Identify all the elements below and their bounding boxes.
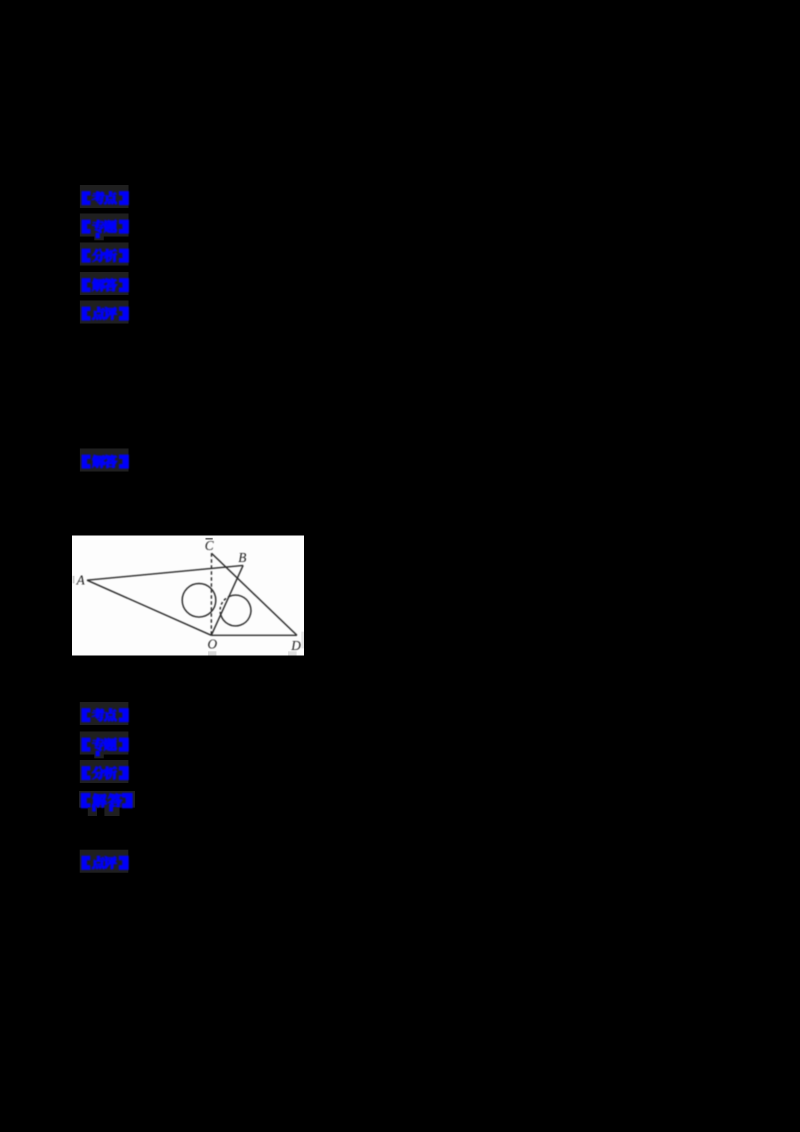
blue label line 2 (zhuanti) — [82, 220, 128, 233]
gray tab below (zhuan hook) — [94, 754, 104, 759]
artifact below O — [208, 651, 216, 655]
band line 9 — [80, 760, 129, 783]
blue label line 5 (dianping) — [82, 307, 128, 320]
band line 5 — [80, 301, 129, 324]
blue label line 10 (jieda13) — [81, 793, 132, 807]
segment AO — [87, 580, 211, 635]
blue label line 11 (dianping) — [82, 856, 128, 869]
gray tab below (zhuan hook) — [94, 236, 104, 241]
artifact right edge strip — [301, 632, 304, 649]
blue label line 3 (fenxi) — [82, 249, 128, 262]
blue label line 7 (kaodian) — [82, 709, 128, 722]
figure white box — [72, 536, 304, 656]
svg-text:B: B — [238, 550, 246, 565]
band line 6 — [80, 449, 129, 472]
band line 4 — [80, 272, 129, 295]
svg-text:A: A — [76, 573, 86, 588]
segment BO — [211, 565, 243, 635]
right circle dashed arc — [220, 597, 229, 615]
band line 8 — [80, 732, 129, 755]
band line 1 — [80, 185, 129, 208]
artifact bottom right — [288, 651, 297, 655]
blue label line 9 (fenxi) — [82, 766, 128, 779]
blue label line 8 (zhuanti) — [82, 738, 128, 751]
svg-text:O: O — [208, 637, 218, 652]
left circle — [182, 584, 216, 618]
segment OD — [211, 634, 297, 636]
sub-band descender right — [104, 808, 119, 817]
band line 11 — [80, 850, 129, 873]
sub-band descender left — [88, 808, 97, 817]
blue label line 6 (jieda) — [82, 455, 128, 468]
band line 7 — [80, 702, 129, 725]
svg-text:D: D — [290, 638, 301, 653]
band line 2 — [80, 214, 129, 237]
blue descender hook left — [92, 804, 96, 812]
blue label line 1 (kaodian) — [82, 192, 128, 205]
dashed segment CO — [210, 553, 212, 635]
artifact left edge tick — [73, 576, 75, 584]
blue hook of zhuan — [96, 751, 100, 757]
blue label line 4 (jieda) — [82, 279, 128, 292]
segment AB — [87, 565, 243, 580]
blue descender hook right — [109, 804, 113, 812]
band line 10 — [79, 791, 135, 808]
right circle solid arc — [221, 595, 251, 626]
segment CD — [212, 553, 297, 635]
svg-text:C: C — [205, 538, 214, 553]
band line 3 — [80, 243, 129, 266]
blue hook of zhuan — [96, 233, 100, 239]
artifact bar above C — [206, 538, 213, 540]
